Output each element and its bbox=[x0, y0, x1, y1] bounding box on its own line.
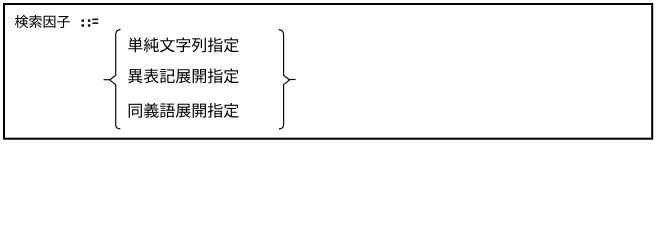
option 2: 異表記展開指定 bbox=[128, 69, 238, 84]
left selection brace bbox=[110, 30, 121, 130]
node 検索因子 (search-factor nonterminal) bbox=[15, 15, 70, 28]
syntax diagram box bbox=[4, 4, 652, 139]
option 3: 同義語展開指定 bbox=[129, 103, 239, 118]
option 1: 単純文字列指定 bbox=[128, 37, 238, 52]
left brace connector tick bbox=[104, 79, 111, 81]
right selection brace bbox=[279, 30, 290, 130]
::= definition operator bbox=[82, 19, 99, 27]
right brace connector tick bbox=[289, 79, 295, 81]
